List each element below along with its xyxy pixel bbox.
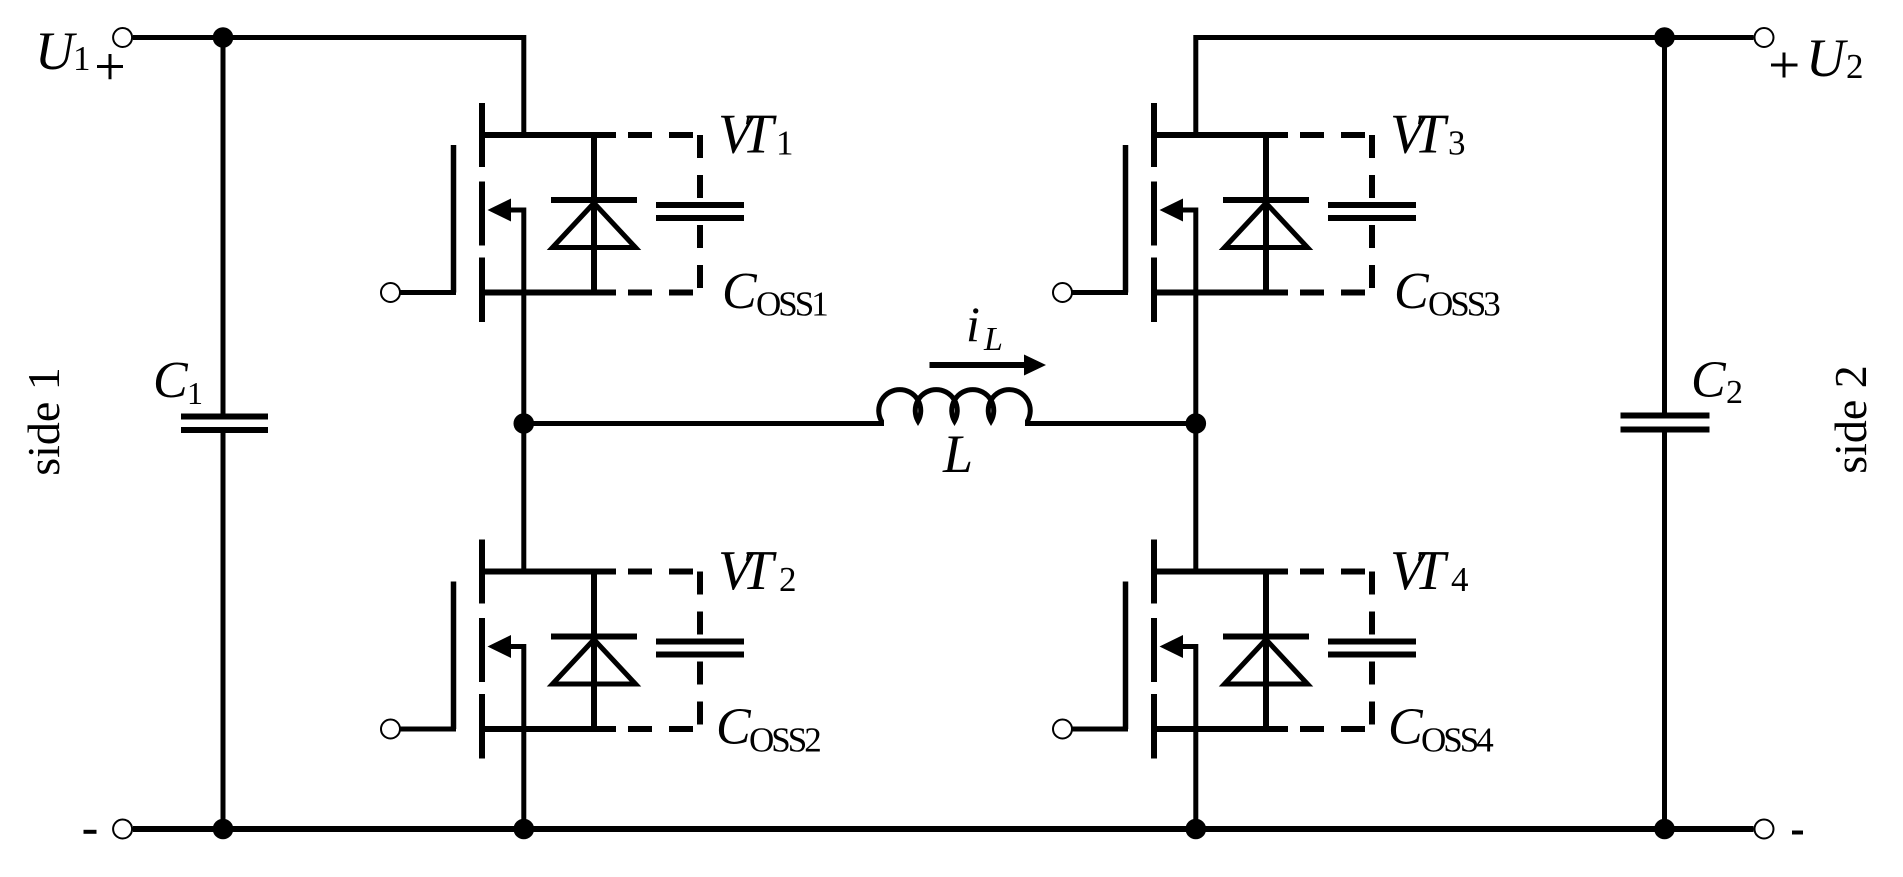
svg-text:4: 4 [1451,560,1469,599]
svg-text:1: 1 [73,39,91,78]
svg-text:side 1: side 1 [18,367,69,476]
svg-text:VT: VT [1390,540,1449,602]
svg-text:side 2: side 2 [1825,365,1876,474]
svg-text:2: 2 [1846,47,1864,86]
svg-text:OSS2: OSS2 [749,721,820,760]
svg-text:VT: VT [718,104,777,166]
svg-text:OSS1: OSS1 [756,285,827,324]
svg-text:C: C [153,352,189,409]
svg-text:C: C [1388,699,1424,756]
svg-text:C: C [716,699,752,756]
svg-text:C: C [722,263,758,320]
svg-text:C: C [1394,263,1430,320]
svg-text:3: 3 [1448,124,1466,163]
svg-text:2: 2 [779,560,797,599]
svg-text:U: U [1806,28,1848,88]
svg-text:U: U [35,21,77,81]
svg-text:1: 1 [187,375,203,411]
svg-text:1: 1 [776,124,794,163]
svg-text:VT: VT [718,540,777,602]
svg-text:VT: VT [1390,104,1449,166]
svg-text:L: L [983,321,1003,358]
svg-text:L: L [942,424,973,484]
svg-text:OSS3: OSS3 [1428,285,1500,324]
svg-text:2: 2 [1726,374,1743,411]
svg-text:i: i [966,296,980,352]
svg-text:OSS4: OSS4 [1421,721,1493,760]
svg-text:C: C [1691,352,1727,409]
